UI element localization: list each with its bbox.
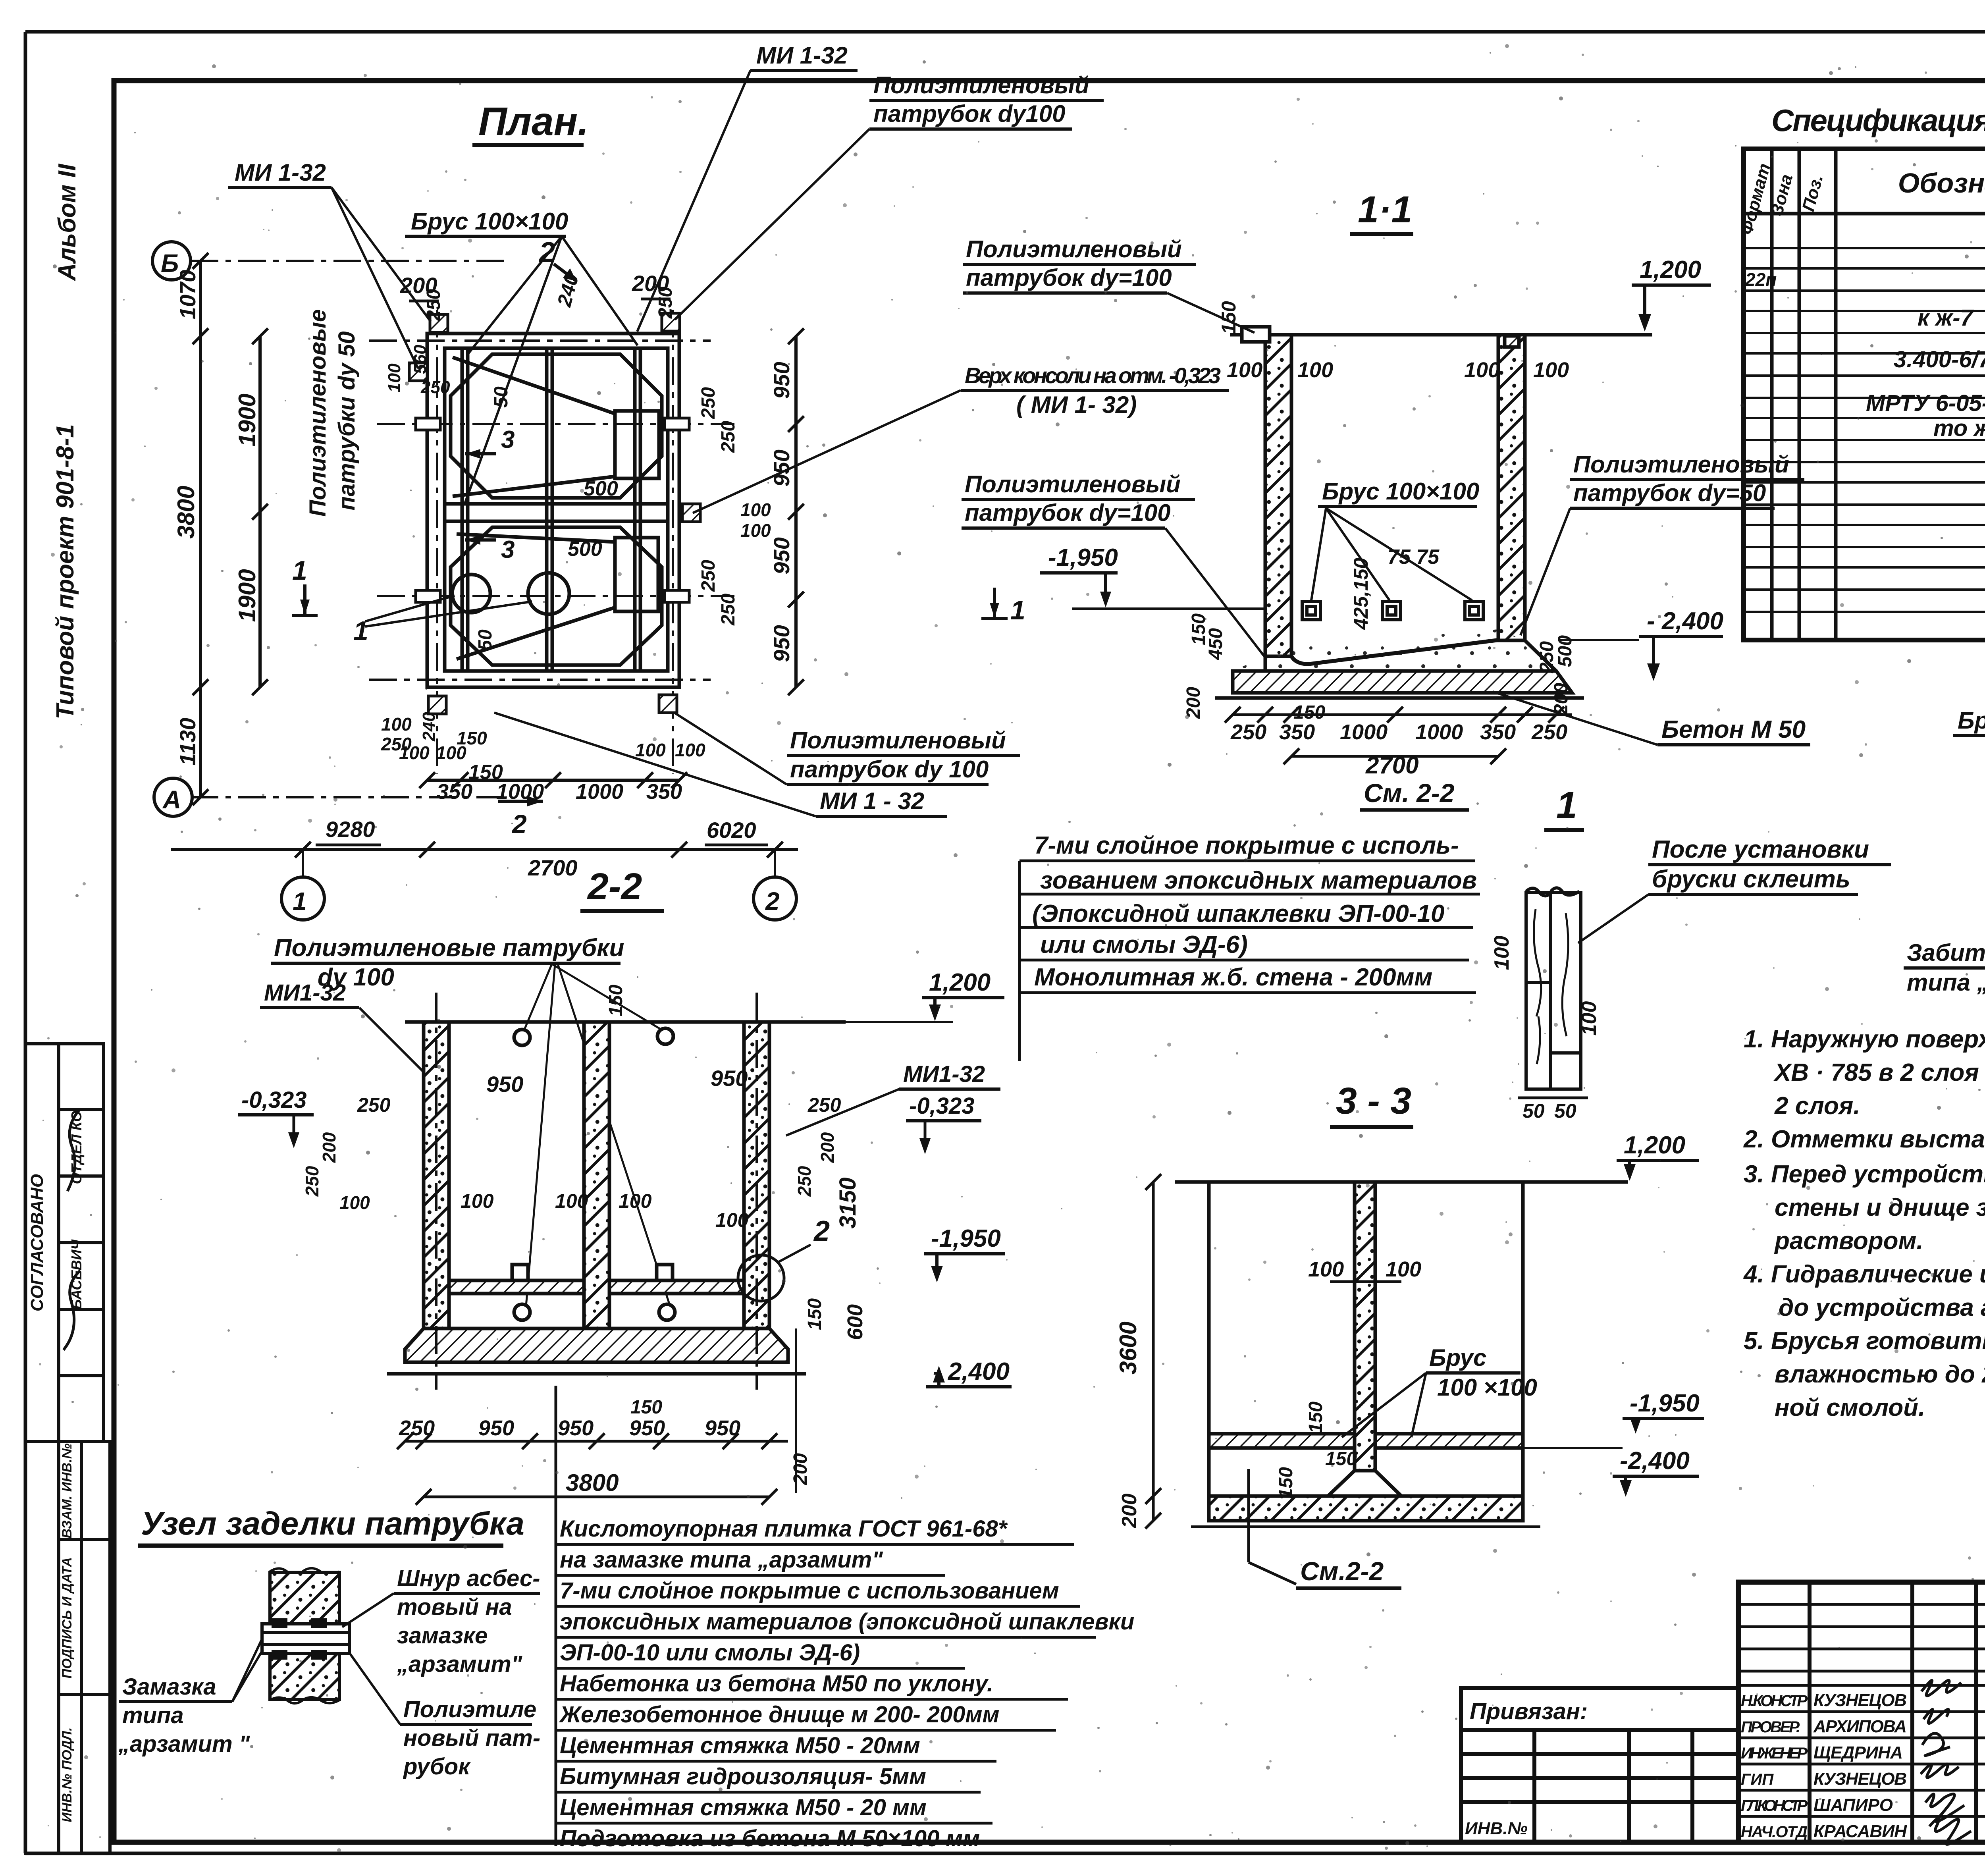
svg-text:КРАСАВИН: КРАСАВИН: [1813, 1822, 1907, 1841]
svg-text:МИ 1-32: МИ 1-32: [756, 42, 848, 69]
svg-text:100: 100: [339, 1192, 370, 1213]
svg-text:7-ми слойное покрытие с исполь: 7-ми слойное покрытие с использованием: [560, 1578, 1059, 1604]
svg-text:Полиэтиле: Полиэтиле: [403, 1697, 536, 1722]
svg-text:100: 100: [715, 1209, 749, 1231]
svg-text:ГЛ.КОНСТР: ГЛ.КОНСТР: [1741, 1797, 1808, 1814]
svg-text:2700: 2700: [528, 855, 578, 880]
svg-text:влажностью до 25%, пропитанной: влажностью до 25%, пропитанной формальде…: [1775, 1361, 1985, 1388]
svg-text:50: 50: [475, 629, 496, 651]
svg-text:150: 150: [804, 1298, 825, 1330]
svg-text:или смолы ЭД-6): или смолы ЭД-6): [1040, 931, 1248, 958]
svg-text:1: 1: [293, 887, 307, 916]
svg-text:100: 100: [1490, 936, 1513, 970]
svg-text:КУЗНЕЦОВ: КУЗНЕЦОВ: [1813, 1691, 1907, 1710]
svg-text:425,150: 425,150: [1350, 557, 1372, 630]
svg-text:См.2-2: См.2-2: [1300, 1556, 1384, 1586]
svg-text:патрубок dy=100: патрубок dy=100: [965, 499, 1171, 526]
svg-text:150: 150: [630, 1397, 662, 1418]
svg-text:2. Отметки выставлены к железо: 2. Отметки выставлены к железобетону.: [1743, 1126, 1985, 1153]
svg-text:МИ1-32: МИ1-32: [903, 1061, 985, 1087]
svg-text:350: 350: [437, 780, 472, 804]
svg-text:Поз.: Поз.: [1798, 173, 1827, 214]
svg-text:патрубок dy=50: патрубок dy=50: [1573, 480, 1766, 506]
svg-text:250: 250: [794, 1166, 815, 1197]
svg-text:250: 250: [381, 734, 412, 754]
svg-text:А: А: [162, 785, 181, 814]
svg-text:Набетонка из бетона М50 по ук: Набетонка из бетона М50 по уклону.: [560, 1671, 993, 1697]
svg-text:Брус 100×100: Брус 100×100: [1322, 478, 1479, 505]
svg-text:5. Брусья готовить из древесин: 5. Брусья готовить из древесины хвойных …: [1744, 1327, 1985, 1355]
svg-text:Брус 100×100: Брус 100×100: [411, 208, 568, 235]
svg-text:100: 100: [555, 1190, 588, 1212]
svg-text:НАЧ.ОТД: НАЧ.ОТД: [1741, 1823, 1808, 1841]
svg-text:-1,950: -1,950: [1630, 1390, 1700, 1417]
svg-text:250: 250: [718, 594, 739, 626]
svg-text:Забить замазкой: Забить замазкой: [1907, 939, 1985, 966]
svg-text:1: 1: [1010, 595, 1025, 625]
svg-text:2700: 2700: [1365, 752, 1418, 779]
svg-text:200: 200: [319, 1132, 339, 1163]
svg-text:3600: 3600: [1115, 1321, 1141, 1374]
svg-text:100: 100: [1578, 1001, 1601, 1036]
svg-text:Н.КОНСТР: Н.КОНСТР: [1741, 1692, 1808, 1710]
svg-text:Верх консоли на отм. -0,323: Верх консоли на отм. -0,323: [965, 363, 1221, 388]
svg-text:100: 100: [385, 363, 404, 393]
svg-text:ИНВ.№ ПОДЛ.: ИНВ.№ ПОДЛ.: [60, 1727, 75, 1822]
svg-text:1,200: 1,200: [1624, 1132, 1685, 1159]
svg-text:2: 2: [813, 1215, 830, 1247]
svg-text:-0,323: -0,323: [241, 1087, 306, 1113]
svg-text:- 2,400: - 2,400: [1647, 607, 1723, 635]
svg-text:ЭП-00-10 или смолы ЭД-6): ЭП-00-10 или смолы ЭД-6): [560, 1640, 860, 1666]
svg-text:См. 2-2: См. 2-2: [1364, 778, 1455, 808]
svg-text:950: 950: [478, 1416, 514, 1440]
svg-text:Альбом II: Альбом II: [54, 163, 81, 281]
svg-text:100: 100: [740, 499, 771, 520]
svg-text:ВЗАМ. ИНВ.№: ВЗАМ. ИНВ.№: [60, 1443, 75, 1538]
svg-text:100: 100: [675, 740, 705, 760]
svg-text:3: 3: [501, 426, 515, 453]
svg-text:Цементная стяжка М50 - 20 мм: Цементная стяжка М50 - 20 мм: [560, 1795, 927, 1820]
svg-text:3. Перед устройством антикорро: 3. Перед устройством антикоррозионного п…: [1744, 1161, 1985, 1188]
svg-text:на замазке типа „арзамит": на замазке типа „арзамит": [560, 1547, 883, 1573]
svg-text:240: 240: [419, 712, 439, 742]
svg-text:150: 150: [605, 985, 626, 1016]
svg-text:1000: 1000: [1340, 720, 1388, 744]
svg-text:Полиэтиленовый: Полиэтиленовый: [1573, 451, 1789, 478]
svg-text:Полиэтиленовые патрубки: Полиэтиленовые патрубки: [274, 934, 624, 962]
svg-text:типа „арзамит": типа „арзамит": [1907, 969, 1985, 996]
svg-text:патрубки dy 50: патрубки dy 50: [334, 331, 360, 510]
svg-text:Спецификация элементов монолит: Спецификация элементов монолитной констр…: [1771, 103, 1985, 138]
svg-text:250: 250: [807, 1094, 841, 1116]
svg-text:950: 950: [711, 1066, 748, 1091]
svg-text:-1,950: -1,950: [1048, 544, 1118, 571]
svg-text:2: 2: [511, 809, 527, 839]
svg-text:4. Гидравлические испытания ем: 4. Гидравлические испытания емкости выпо…: [1743, 1261, 1985, 1288]
svg-text:950: 950: [769, 625, 794, 662]
svg-text:1·1: 1·1: [1358, 189, 1412, 231]
svg-text:замазке: замазке: [397, 1623, 488, 1648]
svg-text:950: 950: [558, 1416, 594, 1440]
svg-text:3.400-6/76: 3.400-6/76: [1894, 347, 1985, 372]
svg-text:1000: 1000: [1415, 720, 1463, 744]
svg-text:патрубок dy=100: патрубок dy=100: [966, 264, 1172, 291]
svg-text:ПРОВЕР.: ПРОВЕР.: [1741, 1718, 1800, 1736]
svg-text:„арзамит": „арзамит": [397, 1651, 523, 1677]
svg-text:-1,950: -1,950: [931, 1225, 1001, 1252]
svg-text:Бетон М 50: Бетон М 50: [1661, 716, 1806, 743]
svg-text:500: 500: [568, 538, 602, 561]
svg-text:Полиэтиленовый: Полиэтиленовый: [873, 72, 1089, 98]
svg-text:450: 450: [1205, 628, 1226, 660]
svg-text:50: 50: [491, 386, 512, 408]
svg-text:Кислотоупорная плитка ГОСТ 961: Кислотоупорная плитка ГОСТ 961-68*: [560, 1516, 1008, 1542]
svg-text:7-ми слойное покрытие с испол: 7-ми слойное покрытие с исполь-: [1034, 832, 1459, 859]
svg-text:250: 250: [399, 1416, 435, 1440]
svg-text:9280: 9280: [326, 817, 375, 842]
svg-text:240: 240: [553, 271, 583, 309]
svg-text:Замазка: Замазка: [122, 1674, 216, 1700]
svg-text:350: 350: [1279, 720, 1315, 744]
svg-text:-2,400: -2,400: [1620, 1447, 1690, 1475]
svg-text:250: 250: [420, 378, 450, 397]
svg-text:3150: 3150: [835, 1177, 861, 1228]
svg-text:150: 150: [1305, 1402, 1326, 1433]
svg-text:2-2: 2-2: [587, 866, 642, 908]
svg-text:500: 500: [584, 477, 618, 500]
svg-text:3: 3: [501, 536, 515, 563]
svg-text:50: 50: [1554, 1100, 1576, 1122]
svg-text:МРТУ 6-05-918-67: МРТУ 6-05-918-67: [1866, 390, 1985, 416]
svg-text:250: 250: [1531, 720, 1567, 744]
svg-text:МИ 1-32: МИ 1-32: [235, 159, 326, 186]
svg-text:100: 100: [619, 1190, 652, 1212]
svg-text:КУЗНЕЦОВ: КУЗНЕЦОВ: [1813, 1769, 1907, 1789]
svg-text:-0,323: -0,323: [909, 1093, 974, 1119]
svg-text:6020: 6020: [707, 817, 756, 843]
svg-text:100: 100: [1464, 358, 1500, 382]
svg-text:100: 100: [635, 740, 666, 760]
svg-text:100: 100: [1297, 358, 1333, 382]
svg-text:1: 1: [1556, 784, 1577, 826]
svg-text:- 2,400: - 2,400: [933, 1358, 1010, 1385]
svg-text:Брус 100×100: Брус 100×100: [1958, 707, 1985, 734]
svg-text:500: 500: [1555, 635, 1576, 667]
svg-text:950: 950: [769, 537, 794, 574]
svg-text:После установки: После установки: [1652, 836, 1869, 863]
svg-text:Полиэтиленовые: Полиэтиленовые: [305, 309, 331, 517]
svg-text:200: 200: [817, 1132, 838, 1163]
svg-text:СОГЛАСОВАНО: СОГЛАСОВАНО: [27, 1174, 47, 1311]
svg-text:100: 100: [381, 714, 412, 735]
svg-text:Привязан:: Привязан:: [1470, 1699, 1588, 1724]
svg-text:1,200: 1,200: [1640, 256, 1701, 283]
svg-text:ШАПИРО: ШАПИРО: [1813, 1795, 1893, 1815]
svg-text:2 слоя.: 2 слоя.: [1774, 1092, 1860, 1120]
svg-text:250: 250: [302, 1166, 322, 1197]
svg-text:250: 250: [698, 387, 719, 419]
svg-text:1. Наружную поверхность баков: 1. Наружную поверхность баков окрасить э…: [1744, 1026, 1985, 1053]
svg-text:рубок: рубок: [403, 1754, 471, 1780]
svg-text:950: 950: [769, 362, 794, 399]
svg-text:75 75: 75 75: [1388, 546, 1440, 569]
svg-text:250: 250: [423, 289, 444, 321]
svg-text:до устройства антикоррозийной: до устройства антикоррозийной защиты.: [1779, 1294, 1985, 1321]
svg-text:зованием эпоксидных материалов: зованием эпоксидных материалов: [1040, 867, 1477, 894]
svg-text:Цементная стяжка М50 - 20мм: Цементная стяжка М50 - 20мм: [560, 1733, 920, 1758]
svg-text:Железобетонное днище м 200- 20: Железобетонное днище м 200- 200мм: [559, 1702, 999, 1728]
svg-text:150: 150: [457, 728, 487, 748]
svg-text:600: 600: [843, 1304, 867, 1340]
svg-text:100: 100: [1386, 1257, 1421, 1281]
svg-text:МИ 1 - 32: МИ 1 - 32: [820, 788, 924, 814]
svg-text:АРХИПОВА: АРХИПОВА: [1813, 1717, 1907, 1736]
svg-text:1,200: 1,200: [929, 969, 991, 996]
svg-text:Подготовка из бетона М 50×100: Подготовка из бетона М 50×100 мм: [560, 1826, 980, 1851]
svg-text:3800: 3800: [566, 1469, 619, 1496]
svg-text:1900: 1900: [234, 569, 260, 622]
svg-text:„арзамит ": „арзамит ": [118, 1731, 251, 1757]
svg-text:250: 250: [655, 287, 676, 319]
svg-text:3800: 3800: [173, 486, 199, 538]
svg-text:Монолитная ж.б. стена - 200мм: Монолитная ж.б. стена - 200мм: [1034, 964, 1432, 991]
svg-text:Брус: Брус: [1429, 1344, 1486, 1371]
svg-text:350: 350: [1480, 720, 1516, 744]
svg-text:1130: 1130: [175, 718, 200, 765]
svg-text:(Эпоксидной шпаклевки ЭП-00-1: (Эпоксидной шпаклевки ЭП-00-10: [1032, 900, 1445, 927]
svg-text:Битумная гидроизоляция- 5мм: Битумная гидроизоляция- 5мм: [560, 1764, 926, 1789]
svg-text:1000: 1000: [576, 780, 623, 804]
svg-text:ИНВ.№: ИНВ.№: [1465, 1819, 1528, 1838]
svg-text:350: 350: [646, 780, 682, 804]
svg-text:200: 200: [1183, 687, 1204, 719]
svg-text:100 ×100: 100 ×100: [1437, 1374, 1537, 1401]
svg-text:1: 1: [292, 555, 307, 586]
svg-text:2: 2: [765, 887, 780, 916]
svg-text:патрубок dy 100: патрубок dy 100: [790, 756, 989, 783]
svg-text:200: 200: [790, 1453, 811, 1485]
svg-text:к ж-7: к ж-7: [1918, 305, 1974, 331]
svg-text:250: 250: [718, 421, 739, 453]
svg-text:100: 100: [740, 520, 771, 541]
svg-text:22п: 22п: [1745, 269, 1777, 290]
svg-text:950: 950: [629, 1416, 665, 1440]
svg-text:патрубок dy100: патрубок dy100: [873, 100, 1066, 127]
svg-text:100: 100: [1308, 1257, 1344, 1281]
svg-text:Полиэтиленовый: Полиэтиленовый: [965, 471, 1181, 497]
svg-text:1070: 1070: [175, 270, 200, 320]
svg-text:3 - 3: 3 - 3: [1336, 1080, 1411, 1122]
svg-text:то же: то же: [1933, 415, 1985, 441]
svg-text:товый на: товый на: [397, 1594, 512, 1620]
svg-text:Шнур асбес-: Шнур асбес-: [397, 1566, 540, 1591]
svg-text:150: 150: [1276, 1467, 1297, 1499]
svg-text:100: 100: [1533, 358, 1569, 382]
svg-text:( МИ 1- 32): ( МИ 1- 32): [1016, 391, 1137, 418]
svg-text:950: 950: [705, 1416, 740, 1440]
svg-text:100: 100: [461, 1190, 494, 1212]
svg-text:150: 150: [1218, 301, 1240, 334]
svg-text:ГИП: ГИП: [1741, 1771, 1774, 1788]
svg-text:ПОДПИСЬ И ДАТА: ПОДПИСЬ И ДАТА: [60, 1557, 75, 1679]
svg-text:эпоксидных материалов (эпоксид: эпоксидных материалов (эпоксидной шпакле…: [560, 1609, 1134, 1635]
svg-text:200: 200: [1118, 1494, 1141, 1529]
svg-text:560: 560: [410, 345, 430, 374]
svg-text:250: 250: [698, 560, 719, 592]
svg-text:типа: типа: [122, 1702, 184, 1728]
svg-text:50: 50: [1522, 1100, 1545, 1122]
svg-text:250: 250: [357, 1094, 391, 1116]
svg-text:150: 150: [1325, 1448, 1357, 1469]
svg-text:950: 950: [486, 1072, 523, 1097]
svg-text:Узел заделки патрубка: Узел заделки патрубка: [141, 1506, 524, 1542]
svg-text:раствором.: раствором.: [1774, 1227, 1923, 1255]
svg-text:Полиэтиленовый: Полиэтиленовый: [966, 236, 1182, 262]
svg-text:Типовой проект 901-8-1: Типовой проект 901-8-1: [52, 424, 79, 719]
svg-text:бруски склеить: бруски склеить: [1652, 866, 1850, 893]
svg-text:2: 2: [538, 237, 555, 268]
svg-text:Обозначение: Обозначение: [1898, 168, 1985, 199]
svg-text:стены и днище затереть цементн: стены и днище затереть цементно-песчаным: [1775, 1194, 1985, 1221]
svg-text:ЩЕДРИНА: ЩЕДРИНА: [1813, 1743, 1903, 1762]
svg-text:250: 250: [1230, 720, 1266, 744]
svg-text:1900: 1900: [234, 393, 260, 446]
svg-text:ИНЖЕНЕР: ИНЖЕНЕР: [1741, 1745, 1808, 1762]
svg-text:Полиэтиленовый: Полиэтиленовый: [790, 727, 1006, 754]
svg-text:новый пат-: новый пат-: [403, 1725, 540, 1751]
svg-text:ной смолой.: ной смолой.: [1775, 1394, 1925, 1421]
svg-text:100: 100: [1227, 358, 1262, 382]
svg-text:План.: План.: [478, 99, 589, 144]
svg-text:ХВ · 785 в 2 слоя по грунтовке: ХВ · 785 в 2 слоя по грунтовке лаком ХВ …: [1773, 1059, 1985, 1086]
